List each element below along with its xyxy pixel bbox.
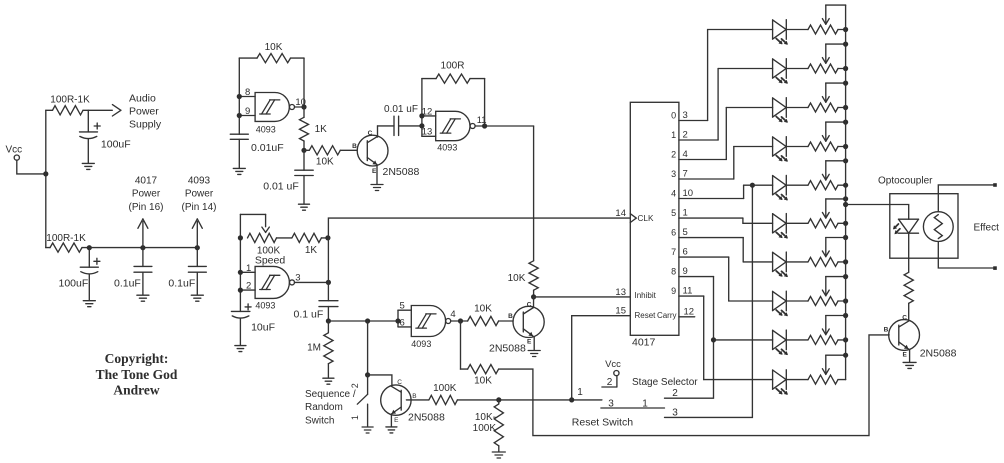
svg-text:9: 9 [683, 266, 688, 277]
svg-text:4093: 4093 [256, 125, 276, 135]
node pot 5 wiper-bus junction [843, 158, 848, 163]
svg-text:Random: Random [305, 402, 343, 413]
wire reset riser [572, 316, 631, 400]
potentiometer VR6 (LED 6 brightness) [786, 199, 845, 228]
svg-text:100R-1K: 100R-1K [46, 233, 86, 244]
wire LED cathode down [908, 233, 910, 272]
label Effect [974, 222, 1000, 233]
ground (switch) [362, 427, 373, 433]
op gate U1b 4093 (pins 12,13,11) [436, 111, 475, 152]
svg-text:E: E [372, 168, 377, 175]
svg-text:Supply: Supply [129, 119, 162, 131]
wire Q4 emitter stub [909, 350, 911, 362]
potentiometer VR8 (LED 8 brightness) [786, 277, 845, 306]
wire photoresistor top to Effect [938, 185, 993, 212]
ground (100uF audio) [82, 163, 94, 169]
pin15 Reset [615, 306, 656, 321]
potentiometer VR7 (LED 7 brightness) [786, 238, 845, 267]
svg-text:B: B [352, 143, 357, 150]
node gate4 output [458, 318, 463, 323]
photoresistor (inside optocoupler) [923, 212, 953, 242]
svg-text:5: 5 [671, 208, 676, 218]
ground (Q1 emitter) [371, 185, 383, 191]
svg-text:Audio: Audio [129, 93, 156, 105]
potentiometer VR2 (LED 2 brightness) [786, 44, 845, 73]
wire 4017 output 6 (pin 5) to LED 7 [671, 227, 772, 262]
node gate2 output [482, 123, 487, 128]
svg-text:4: 4 [683, 149, 688, 160]
svg-text:9: 9 [671, 286, 676, 296]
transistor Q1 2N5088 [352, 130, 419, 178]
resistor R 100R-1K (logic supply) [46, 233, 90, 252]
capacitor C 10uF (speed) [231, 304, 275, 345]
LED D1 [773, 20, 788, 45]
LED D2 [773, 59, 788, 84]
svg-text:100R-1K: 100R-1K [50, 94, 90, 105]
Vcc terminal (reset) [605, 359, 621, 376]
wire to Q3 collector [368, 375, 392, 385]
svg-text:C: C [902, 314, 907, 321]
svg-text:1: 1 [577, 387, 583, 398]
switch Reset contact 2 to Vcc [602, 376, 617, 387]
label reset pole 1 [577, 387, 583, 398]
switch Stage contact 2 (8 stages) [665, 340, 714, 398]
svg-text:(Pin 16): (Pin 16) [128, 202, 163, 213]
LED D6 [773, 214, 788, 239]
node speed feedback junction [325, 235, 330, 240]
potentiometer VR1 (LED 1 brightness) [786, 5, 845, 34]
svg-text:7: 7 [683, 169, 688, 180]
svg-text:6: 6 [683, 247, 688, 258]
label pin2 [246, 281, 251, 292]
svg-text:0.01uF: 0.01uF [251, 142, 284, 154]
wire 4017 output 7 (pin 6) to LED 8 [671, 247, 772, 301]
resistor R 10K-100K pulldown [473, 400, 504, 452]
svg-text:10K: 10K [316, 156, 334, 167]
wire opto feed [846, 205, 909, 220]
wire 4017 output 9 (pin 11) to LED 10 [671, 286, 772, 380]
svg-text:Vcc: Vcc [6, 145, 23, 156]
svg-text:2N5088: 2N5088 [408, 411, 445, 423]
label pin4 [450, 309, 455, 320]
node pulldown junction [496, 397, 501, 402]
label Reset Switch [572, 416, 633, 428]
svg-text:0: 0 [671, 111, 676, 121]
svg-text:Power: Power [129, 106, 159, 118]
op gate U1c 4093 Speed (pins 1,2,3) [255, 266, 294, 310]
wire gate1 left rail [238, 58, 240, 134]
resistor R (opto LED series) [904, 272, 913, 320]
label pin12 [422, 106, 433, 117]
svg-text:Effect: Effect [974, 222, 1000, 233]
svg-text:4: 4 [450, 309, 455, 320]
svg-text:E: E [903, 351, 908, 358]
ground (100uF logic) [83, 301, 95, 307]
label pin13 [422, 127, 433, 138]
svg-text:4093: 4093 [411, 339, 431, 349]
svg-text:Sequence /: Sequence / [305, 389, 356, 400]
ground (0.1uF 4093) [191, 295, 203, 301]
label reset contact 2 [607, 377, 613, 388]
wire gate4 output down [460, 321, 462, 369]
svg-text:Switch: Switch [305, 415, 334, 426]
wire Vcc to main rail [17, 160, 46, 174]
potentiometer VR4 (LED 4 brightness) [786, 122, 845, 151]
pin14 CLK [615, 208, 654, 223]
svg-text:4093: 4093 [437, 142, 457, 152]
svg-text:7: 7 [671, 247, 676, 257]
svg-text:Andrew: Andrew [113, 383, 160, 398]
svg-text:14: 14 [615, 208, 626, 219]
label pin1 [246, 263, 251, 274]
svg-text:6: 6 [671, 228, 676, 238]
wire 4017 output 2 (pin 4) to LED 3 [671, 108, 772, 161]
Vcc supply terminal [6, 145, 23, 161]
ground (Q2 emitter) [528, 351, 540, 357]
LED D7 [773, 252, 788, 277]
svg-text:100R: 100R [441, 60, 465, 71]
wire reset contact 3 / stage pole 1 [601, 407, 665, 409]
ground (0.01uF lower) [299, 204, 310, 210]
label stage pole 1 [642, 398, 648, 409]
svg-text:0.1uF: 0.1uF [114, 278, 141, 290]
svg-text:Power: Power [185, 189, 214, 200]
resistor R 1K (speed osc) [277, 233, 329, 256]
node pot 10 wiper-bus junction [843, 353, 848, 358]
wire 4017 output 4 (pin 10) to LED 5 [671, 185, 772, 199]
LED D5 [773, 175, 788, 200]
terminal Effect top [993, 183, 997, 187]
switch Sequence/Random [350, 375, 368, 427]
svg-text:C: C [397, 379, 402, 386]
wire 100K to reset node [457, 399, 602, 401]
capacitor C 0.01uF coupling [378, 104, 422, 135]
svg-text:8: 8 [671, 267, 676, 277]
svg-text:11: 11 [683, 286, 693, 297]
wire audio rail down [533, 126, 535, 261]
wire Q2 base [499, 320, 513, 322]
svg-text:1: 1 [642, 398, 648, 409]
LED D9 [773, 330, 788, 355]
potentiometer VR10 (LED 10 brightness) [786, 355, 845, 384]
wire Inhibit line [534, 296, 631, 298]
svg-text:Optocoupler: Optocoupler [878, 175, 933, 186]
node stage tap row9 [711, 337, 716, 342]
svg-text:2: 2 [607, 377, 613, 388]
label stage contact 3 [672, 408, 678, 419]
node pot 6 bus junction [843, 221, 848, 226]
wire photoresistor bottom to Effect [938, 242, 993, 269]
resistor R 10K (Q2 collector load) [508, 261, 539, 297]
node reset junction [569, 397, 574, 402]
svg-text:2N5088: 2N5088 [489, 342, 526, 354]
svg-text:13: 13 [615, 287, 626, 298]
node pot 7 bus junction [843, 259, 848, 264]
terminal Effect bottom [993, 266, 997, 270]
node gate4 input [395, 318, 400, 323]
optocoupler box [890, 194, 958, 259]
node pot 1 bus junction [843, 27, 848, 32]
wire speed right rail [327, 238, 329, 301]
node coupling junction [419, 123, 424, 128]
wire gate1 right rail [303, 58, 305, 107]
svg-text:2N5088: 2N5088 [383, 166, 420, 178]
svg-text:2: 2 [350, 383, 360, 388]
wire gate2 right rail [484, 79, 486, 126]
node pot 6 wiper-bus junction [843, 196, 848, 201]
label pin8 [245, 87, 250, 98]
svg-text:4093: 4093 [255, 300, 275, 310]
transistor Q2 2N5088 [489, 301, 544, 354]
node opto tap [843, 202, 848, 207]
potentiometer VR9 (LED 9 brightness) [786, 316, 845, 345]
node pot 4 wiper-bus junction [843, 120, 848, 125]
node pin2 junction [238, 288, 243, 293]
wire 4017 output 8 (pin 9) to LED 9 [671, 266, 772, 340]
LED (inside optocoupler) [893, 219, 919, 234]
wire LED bus [845, 5, 847, 380]
LED D3 [773, 98, 788, 123]
wire Q2 emitter stub [533, 337, 535, 350]
arrow to 4017 power pin 16 [138, 219, 148, 248]
label pin10 [295, 97, 306, 108]
wire Q3 emitter stub [390, 415, 392, 427]
wire gate4 output [451, 320, 468, 322]
capacitor C 100uF (logic supply) [59, 248, 100, 301]
wire gate3 left rail [240, 214, 255, 311]
node pot 9 bus junction [843, 337, 848, 342]
resistor R 10K feedback (audio osc) [239, 42, 304, 63]
node logic supply junction [87, 245, 92, 250]
svg-text:1: 1 [350, 415, 360, 420]
transistor Q4 2N5088 [884, 314, 957, 359]
resistor R 100K (Q3 base) [429, 383, 458, 405]
label pin11 [477, 115, 487, 126]
svg-text:Inhibit: Inhibit [635, 291, 657, 300]
resistor R 10K (to Q1 base) [304, 146, 357, 168]
arrow to audio power supply [112, 105, 121, 116]
LED D4 [773, 137, 788, 162]
label 4017 Power (Pin 16) [128, 175, 163, 213]
label pin6 [400, 317, 405, 328]
svg-text:100uF: 100uF [59, 278, 89, 290]
svg-text:2: 2 [671, 150, 676, 160]
ground (0.1uF 4017) [137, 295, 149, 301]
svg-text:The Tone God: The Tone God [96, 367, 178, 382]
svg-text:10K: 10K [474, 375, 492, 386]
label Optocoupler [878, 175, 933, 186]
svg-text:4: 4 [671, 189, 676, 199]
wire main Vcc rail [45, 110, 47, 247]
node timing junction [326, 318, 331, 323]
ground (pulldown) [492, 452, 505, 458]
node pin9 junction [237, 113, 242, 118]
LED D8 [773, 291, 788, 316]
wire gate1 output [295, 106, 305, 108]
resistor R 1M [307, 321, 333, 378]
svg-text:0.01 uF: 0.01 uF [384, 104, 418, 115]
capacitor C 0.1uF (speed) [294, 301, 338, 321]
svg-text:4017: 4017 [135, 175, 158, 186]
svg-text:(Pin 14): (Pin 14) [181, 202, 216, 213]
svg-text:3: 3 [683, 110, 688, 121]
node 0.1uF-4093 junction [195, 245, 200, 250]
label Audio Power Supply [129, 93, 162, 131]
svg-text:E: E [527, 338, 532, 345]
svg-text:1M: 1M [307, 342, 321, 353]
node 0.1uF-4017 junction [140, 245, 145, 250]
op 4017 counter U2 [630, 102, 679, 348]
svg-text:0.1uF: 0.1uF [168, 278, 195, 290]
node Vcc rail junction [43, 171, 48, 176]
svg-text:0.01 uF: 0.01 uF [263, 181, 299, 193]
pin12 Carry [657, 307, 695, 321]
wire clock-mute run [499, 335, 890, 436]
svg-text:1: 1 [683, 208, 688, 219]
resistor R 1K (audio osc) [300, 107, 328, 150]
svg-text:2N5088: 2N5088 [920, 347, 957, 359]
wire Q2 collector stub [533, 297, 535, 308]
potentiometer VR5 (LED 5 brightness) [786, 161, 845, 190]
node pot 5 bus junction [843, 183, 848, 188]
node pot 8 bus junction [843, 298, 848, 303]
wire 4017 output 0 (pin 3) to LED 1 [671, 30, 772, 122]
svg-text:1: 1 [671, 130, 676, 140]
svg-text:Power: Power [132, 189, 161, 200]
node timing branch [365, 318, 370, 323]
label pin9 [245, 106, 250, 117]
node Q2 collector junction [531, 294, 536, 299]
svg-text:15: 15 [615, 306, 626, 317]
copyright text [96, 351, 178, 398]
capacitor C 100uF (audio supply) [80, 110, 131, 163]
svg-text:B: B [884, 327, 889, 334]
svg-text:100uF: 100uF [101, 139, 131, 151]
wire Q1 collector stub [377, 126, 379, 137]
svg-text:Reset: Reset [635, 311, 657, 320]
svg-text:12: 12 [684, 307, 695, 318]
svg-text:B: B [508, 313, 513, 320]
wire Q3 base [406, 399, 429, 401]
node pin1 junction [238, 270, 243, 275]
node pot 7 wiper-bus junction [843, 235, 848, 240]
resistor R 100R-1K (audio supply) [46, 94, 113, 115]
resistor R 10K (Q2 base) [468, 303, 499, 325]
node gate3 output [326, 280, 331, 285]
transistor Q3 2N5088 (mirrored) [381, 379, 445, 424]
svg-text:C: C [527, 301, 532, 308]
ground (Q4 emitter) [903, 362, 916, 368]
ground (0.01uF gate1) [233, 168, 245, 174]
wire gate2 output [475, 125, 533, 127]
svg-text:CLK: CLK [638, 214, 654, 223]
pin13 Inhibit [615, 287, 656, 300]
label stage contact 2 [672, 388, 678, 399]
label Sequence Random Switch [305, 389, 356, 427]
potentiometer 100K Speed [240, 214, 285, 266]
node stage tap row5 [750, 183, 755, 188]
svg-text:100K: 100K [433, 383, 457, 394]
node pin12 junction [419, 113, 424, 118]
wire gate3 output [295, 281, 329, 283]
wire 4017 output 5 (pin 1) to LED 6 [671, 208, 772, 224]
node 1K bottom junction [301, 148, 306, 153]
node speed rail top [238, 235, 243, 240]
ground (10uF) [235, 346, 246, 352]
svg-text:5: 5 [683, 227, 688, 238]
LED D10 [773, 370, 788, 395]
wire logic supply rail [89, 247, 197, 249]
svg-text:1K: 1K [315, 124, 328, 135]
wire 4017 output 3 (pin 7) to LED 4 [671, 147, 772, 180]
svg-text:3: 3 [672, 408, 678, 419]
svg-text:2: 2 [683, 130, 688, 141]
svg-text:B: B [412, 393, 416, 400]
wire gate1 input stubs [239, 97, 255, 116]
switch Stage contact 3 (4 stages) [665, 185, 753, 417]
svg-text:Speed: Speed [255, 254, 286, 266]
capacitor C 0.1uF (4017) [114, 248, 152, 295]
capacitor C 0.1uF (4093) [168, 248, 206, 295]
node pot 2 wiper-bus junction [843, 42, 848, 47]
resistor R 10K (clock to Q4 base) [461, 365, 499, 387]
node gate1 output [301, 104, 306, 109]
svg-text:E: E [394, 417, 399, 424]
svg-text:10K: 10K [508, 273, 526, 284]
node pot 2 bus junction [843, 66, 848, 71]
svg-text:4017: 4017 [632, 337, 656, 349]
wire 4017 output 1 (pin 2) to LED 2 [671, 69, 772, 141]
svg-text:1K: 1K [305, 245, 318, 256]
svg-text:2: 2 [672, 388, 678, 399]
capacitor C 0.01uF (Q1 emitter-side rail) [263, 150, 313, 203]
svg-text:C: C [368, 130, 373, 137]
ground (1M) [323, 378, 334, 384]
node pot 4 bus junction [843, 144, 848, 149]
svg-text:3: 3 [608, 398, 614, 409]
label Stage Selector [632, 377, 698, 388]
wire timing branch down [367, 321, 369, 375]
label 4093 Power (Pin 14) [181, 175, 216, 213]
svg-text:10uF: 10uF [251, 322, 275, 334]
svg-text:Vcc: Vcc [605, 359, 621, 370]
label pin3 [295, 273, 300, 284]
label pin5 [400, 301, 405, 312]
svg-text:Carry: Carry [657, 311, 677, 320]
potentiometer VR3 (LED 3 brightness) [786, 83, 845, 112]
svg-text:10: 10 [683, 188, 694, 199]
svg-text:0.1 uF: 0.1 uF [294, 308, 324, 320]
label reset contact 3 [608, 398, 614, 409]
node pot 9 wiper-bus junction [843, 313, 848, 318]
wire gate4 input bracket [398, 310, 411, 327]
svg-text:10K: 10K [474, 303, 492, 314]
node pot 3 wiper-bus junction [843, 81, 848, 86]
svg-text:10K: 10K [265, 42, 283, 53]
resistor R 100R feedback (gate2) [422, 60, 485, 83]
ground (Q3 emitter) [386, 427, 397, 433]
wire CLK line [328, 218, 630, 238]
svg-text:10K-: 10K- [475, 412, 496, 423]
op gate U1d 4093 (pins 5,6,4) [411, 306, 450, 350]
node pot 8 wiper-bus junction [843, 274, 848, 279]
node pin8 junction [237, 94, 242, 99]
wire timing node to gate4 [328, 320, 398, 322]
svg-text:4093: 4093 [188, 175, 211, 186]
wire Q1 emitter stub [376, 166, 378, 185]
arrow to 4093 power pin 14 [192, 219, 202, 248]
wire gate2 input rail [422, 79, 436, 137]
